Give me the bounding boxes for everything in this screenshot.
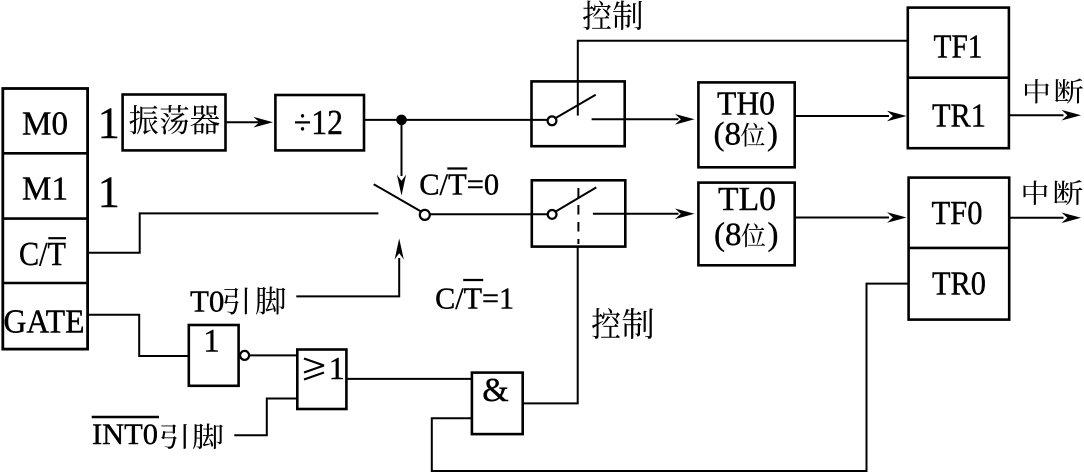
svg-text:(8: (8 — [714, 217, 742, 253]
svg-text:÷12: ÷12 — [294, 103, 343, 142]
svg-text:C/T: C/T — [19, 236, 66, 273]
svg-text:TL0: TL0 — [718, 181, 776, 218]
svg-text:(8: (8 — [714, 117, 742, 153]
svg-text:TR0: TR0 — [932, 266, 986, 303]
svg-text:1: 1 — [98, 99, 120, 148]
svg-text:C/T=1: C/T=1 — [435, 281, 514, 316]
svg-text:INT0: INT0 — [92, 418, 158, 451]
svg-text:M0: M0 — [22, 106, 68, 143]
svg-text:): ) — [767, 117, 778, 153]
svg-text:TF1: TF1 — [934, 28, 983, 65]
svg-text:T0: T0 — [190, 284, 224, 319]
svg-text:1: 1 — [98, 168, 120, 217]
svg-text:TR1: TR1 — [932, 97, 986, 134]
svg-text:): ) — [768, 217, 779, 253]
svg-text:1: 1 — [203, 324, 220, 360]
svg-text:TF0: TF0 — [932, 195, 983, 232]
svg-text:C/T=0: C/T=0 — [419, 167, 499, 202]
svg-text:GATE: GATE — [4, 304, 85, 341]
svg-text:&: & — [482, 372, 508, 409]
svg-text:M1: M1 — [22, 171, 68, 208]
svg-text:1: 1 — [329, 350, 345, 386]
